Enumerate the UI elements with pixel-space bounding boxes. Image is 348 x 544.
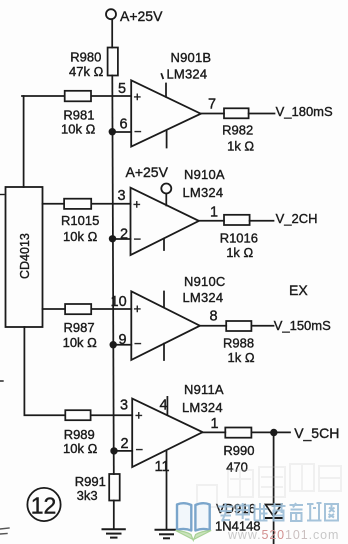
svg-text:10k Ω: 10k Ω [61, 122, 96, 137]
svg-text:+: + [133, 196, 141, 211]
svg-text:A+25V: A+25V [126, 164, 169, 180]
wire: diode cathode to bottom edge [273, 518, 275, 544]
stray scan tick left edge (lower) [0, 380, 3, 382]
svg-text:11: 11 [155, 459, 170, 475]
resistor R989 10kΩ [63, 410, 98, 456]
svg-text:R988: R988 [223, 336, 254, 351]
resistor R1015 10kΩ [61, 199, 99, 244]
schematic sheet marker 12 [27, 488, 60, 521]
wire: to V_150mS [251, 325, 273, 327]
svg-text:47k Ω: 47k Ω [69, 64, 104, 79]
resistor R1016 1kΩ [220, 215, 258, 260]
svg-text:+: + [134, 89, 142, 104]
svg-text:1k Ω: 1k Ω [226, 245, 253, 260]
svg-text:3k3: 3k3 [77, 488, 98, 503]
resistor R990 470 [223, 428, 254, 475]
svg-text:LM324: LM324 [182, 400, 223, 415]
svg-text:V_2CH: V_2CH [276, 211, 318, 226]
diode VD916 1N4148 [215, 501, 282, 534]
svg-text:4: 4 [160, 398, 168, 414]
svg-text:2: 2 [120, 227, 128, 243]
resistor R982 1kΩ [222, 108, 254, 153]
svg-text:R989: R989 [64, 427, 95, 442]
op-amp U1 N901B LM324 [118, 50, 216, 148]
svg-text:+: + [135, 408, 143, 423]
watermark text: 家电维修资料网 (stylized) [218, 503, 338, 522]
svg-text:LM324: LM324 [167, 66, 208, 81]
svg-text:470: 470 [226, 460, 248, 475]
node: junction pin2 (op2) [109, 235, 116, 242]
wire: op3 output [200, 325, 226, 327]
resistor R987 10kΩ [63, 304, 98, 350]
svg-text:www.520101.com: www.520101.com [227, 528, 339, 542]
resistor R981 10kΩ [61, 91, 96, 137]
wire: to V_180mS [249, 113, 275, 115]
svg-text:−: − [136, 442, 144, 457]
svg-text:V_150mS: V_150mS [274, 318, 331, 333]
svg-text:9: 9 [119, 332, 127, 348]
svg-text:3: 3 [120, 398, 128, 414]
op-amp U3 N910C LM324 [111, 274, 226, 360]
svg-text:LM324: LM324 [183, 290, 224, 305]
svg-text:N910A: N910A [184, 167, 225, 182]
stray scan tick left edge (mid) [0, 194, 4, 196]
svg-text:10: 10 [111, 294, 127, 310]
svg-text:N911A: N911A [184, 382, 224, 397]
node: junction pin6 [109, 128, 116, 135]
wire: CD4013 bottom to pin3 row (op4) [24, 327, 132, 415]
svg-text:10k Ω: 10k Ω [63, 335, 98, 350]
wire: R991 to ground [113, 501, 115, 529]
svg-text:R991: R991 [75, 474, 106, 489]
svg-text:1: 1 [210, 205, 218, 221]
wire: op4 output [203, 431, 226, 433]
svg-text:A+25V: A+25V [120, 8, 163, 24]
wire: op1 output [201, 113, 224, 115]
IC CD4013 [6, 187, 43, 327]
svg-text:8: 8 [210, 309, 218, 325]
svg-text:7: 7 [208, 97, 216, 113]
svg-text:10k Ω: 10k Ω [63, 441, 98, 456]
resistor R980 47kΩ (vertical) [69, 48, 118, 80]
watermark: faint gray blocks [197, 464, 341, 507]
svg-text:LM324: LM324 [183, 185, 224, 200]
wire: op2 output [199, 220, 224, 222]
svg-text:N910C: N910C [184, 274, 225, 289]
svg-text:EX: EX [289, 282, 308, 298]
svg-text:2: 2 [121, 436, 129, 452]
node: junction pin2 (op4) [110, 447, 117, 454]
node: junction pin9 [110, 341, 117, 348]
svg-text:R981: R981 [63, 108, 94, 123]
power terminal A+25V (op2) [126, 164, 172, 205]
svg-text:N901B: N901B [171, 50, 212, 65]
svg-text:1: 1 [211, 416, 219, 432]
wire: bus to pin6 [112, 131, 131, 133]
svg-text:R1016: R1016 [220, 231, 258, 246]
wire: to V_5CH [251, 431, 290, 433]
svg-text:R987: R987 [64, 320, 95, 335]
resistor R991 3k3 (vertical) [75, 474, 120, 503]
svg-text:R1015: R1015 [61, 213, 99, 228]
wire: CD4013 to pin10 row [43, 308, 132, 310]
svg-text:−: − [134, 232, 142, 247]
svg-text:6: 6 [120, 117, 128, 133]
wire: bus to pin9 [113, 344, 131, 346]
resistor R988 1kΩ [223, 321, 255, 365]
svg-text:−: − [134, 124, 142, 139]
svg-text:12: 12 [31, 493, 57, 519]
stray scan mark (comma before LM324) [162, 74, 164, 78]
ground (below pin 11) [156, 530, 178, 539]
svg-text:V_180mS: V_180mS [276, 104, 333, 119]
watermark logo: open book [176, 503, 212, 540]
svg-text:5: 5 [118, 81, 126, 97]
svg-text:V_5CH: V_5CH [294, 425, 339, 441]
svg-text:3: 3 [118, 188, 126, 204]
op-amp U4 N911A LM324 [120, 382, 224, 529]
node: junction V_5CH [270, 429, 277, 436]
svg-text:1k Ω: 1k Ω [228, 350, 255, 365]
wire: main vertical reference bus [112, 76, 114, 475]
svg-text:+: + [134, 301, 142, 316]
wire: bus to pin2 op4 [114, 450, 132, 452]
ground (below R991) [103, 529, 125, 537]
wire: left bus down to CD4013 [23, 96, 25, 187]
svg-text:1k Ω: 1k Ω [227, 139, 254, 154]
wire: A+25V terminal to R980 [111, 19, 113, 47]
wire: CD4013 to pin3 row [43, 203, 131, 205]
power terminal A+25V (top) [106, 8, 163, 24]
wire: pin5 input row [22, 95, 131, 97]
wire: junction down to diode [273, 433, 275, 507]
svg-text:10k Ω: 10k Ω [63, 229, 98, 244]
svg-text:R982: R982 [222, 123, 253, 138]
svg-text:R990: R990 [223, 443, 254, 458]
svg-text:R980: R980 [70, 50, 101, 65]
stray scan mark bottom-left [0, 528, 9, 534]
svg-text:−: − [134, 336, 142, 351]
wire: to V_2CH [250, 220, 274, 222]
op-amp U2 N910A LM324 [118, 167, 225, 255]
wire: bus to pin2 [113, 238, 131, 240]
svg-text:CD4013: CD4013 [18, 233, 32, 279]
